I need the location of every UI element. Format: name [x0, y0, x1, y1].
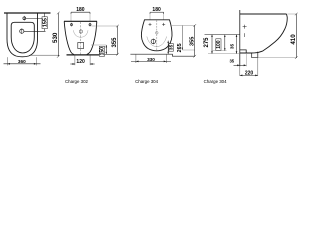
ext line hole level: [92, 25, 118, 27]
svg-text:265: 265: [177, 43, 183, 52]
ext line 100 bottom: [212, 50, 227, 52]
svg-text:35: 35: [229, 59, 234, 64]
drain hole: [20, 29, 24, 33]
dim line 355: [117, 26, 119, 54]
svg-text:Charge 302: Charge 302: [65, 79, 89, 84]
bolt cross: [243, 25, 247, 29]
fixing cross right: [162, 23, 165, 26]
bottom reference line: [130, 54, 195, 56]
svg-text:530: 530: [52, 32, 59, 43]
svg-text:155: 155: [43, 18, 49, 27]
dim line 360: [4, 63, 41, 65]
svg-text:355: 355: [112, 37, 118, 48]
dim line 265: [181, 26, 183, 51]
wall line: [239, 10, 241, 66]
svg-text:330: 330: [147, 57, 155, 62]
inner bowl bottom arc: [147, 37, 167, 47]
drain box: [78, 43, 84, 49]
ext line 410 bottom: [252, 57, 297, 59]
ext line 410 top: [288, 13, 297, 15]
ext line 220: [257, 58, 259, 76]
drain circle: [151, 39, 155, 43]
boxed label 100: [216, 39, 221, 51]
tap hole: [23, 17, 26, 20]
svg-text:355: 355: [190, 37, 196, 46]
outer body outline: [7, 13, 38, 56]
ext lines 180: [70, 14, 72, 21]
wall line: [4, 12, 51, 14]
ext lines 360: [6, 57, 8, 65]
svg-text:275: 275: [204, 37, 210, 48]
svg-text:360: 360: [18, 59, 26, 64]
dim line 410: [295, 14, 297, 58]
svg-text:410: 410: [290, 34, 297, 45]
dim arrows front height: [167, 41, 169, 55]
ext lines 180: [149, 14, 151, 20]
svg-text:Charge 304: Charge 304: [204, 79, 228, 84]
dim line 180: [71, 11, 90, 13]
ext lines 330: [135, 54, 137, 63]
body outline: [141, 20, 172, 51]
ext line drain level: [91, 44, 106, 46]
top rim: [240, 13, 287, 15]
svg-text:100: 100: [216, 40, 222, 49]
boxed label 35: [169, 44, 174, 52]
ext line front: [31, 54, 59, 56]
dim line 120: [70, 63, 75, 65]
overflow circle: [79, 30, 82, 33]
dim line 275: [211, 35, 213, 54]
dim line 100: [224, 35, 226, 51]
svg-text:120: 120: [76, 59, 85, 65]
fixing hole left: [70, 24, 72, 26]
ext line hole level: [171, 25, 195, 27]
dim line 35 mid: [236, 35, 238, 54]
ext line left: [205, 34, 240, 36]
centre line: [156, 20, 158, 50]
svg-text:35: 35: [169, 44, 175, 50]
boxed label 150: [99, 46, 104, 56]
floor ext right: [102, 53, 119, 55]
inner bowl rim arc: [73, 30, 88, 37]
dim line 530: [57, 13, 59, 56]
body left side: [64, 21, 74, 55]
body top edge: [64, 20, 97, 22]
svg-text:35: 35: [230, 44, 236, 50]
wall ext 220: [239, 66, 241, 76]
body right side: [87, 21, 97, 55]
svg-text:150: 150: [99, 47, 105, 56]
cross on ext line: [244, 33, 246, 37]
body profile: [240, 14, 287, 53]
floor line: [67, 54, 102, 56]
ext lines 120: [74, 55, 76, 65]
dim line 355: [194, 26, 196, 57]
tap hole leader: [26, 17, 46, 19]
svg-text:Charge 304: Charge 304: [135, 79, 159, 84]
drain leader: [24, 30, 46, 32]
dim line 220: [240, 74, 258, 76]
svg-text:220: 220: [245, 70, 254, 76]
overflow circle: [156, 32, 159, 35]
fixing hole right: [89, 24, 91, 26]
ext line 35: [208, 53, 240, 55]
fixing cross left: [149, 23, 152, 26]
dim line 150: [105, 45, 107, 54]
dim line 155: [44, 13, 46, 31]
dim line 330: [131, 60, 171, 62]
dim line 180: [150, 11, 164, 13]
ext pipe edge: [245, 53, 247, 66]
inner bowl rim: [11, 22, 34, 53]
centre line: [80, 22, 82, 55]
boxed label 155: [42, 17, 47, 29]
drain pipe: [252, 52, 258, 58]
dim arrow 35 bottom: [234, 64, 247, 66]
step near wall: [240, 50, 246, 53]
